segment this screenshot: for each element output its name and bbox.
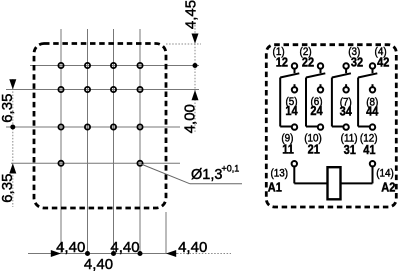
svg-text:+0,1: +0,1 [222, 164, 240, 174]
svg-text:6,35: 6,35 [0, 174, 16, 203]
svg-text:41: 41 [363, 143, 376, 157]
svg-text:42: 42 [377, 56, 390, 70]
svg-text:44: 44 [366, 105, 379, 119]
svg-text:31: 31 [344, 143, 357, 157]
svg-text:14: 14 [285, 104, 298, 118]
svg-text:(13): (13) [271, 168, 289, 180]
svg-text:22: 22 [302, 56, 315, 70]
svg-text:4,45: 4,45 [183, 0, 200, 29]
svg-text:A1: A1 [268, 181, 282, 195]
svg-text:12: 12 [276, 56, 289, 70]
svg-text:34: 34 [340, 105, 353, 119]
svg-text:A2: A2 [381, 181, 395, 195]
svg-text:Ø1,3: Ø1,3 [191, 167, 222, 183]
svg-text:(14): (14) [376, 168, 394, 180]
svg-text:4,40: 4,40 [56, 239, 85, 256]
svg-text:21: 21 [308, 143, 321, 157]
svg-text:4,40: 4,40 [110, 239, 139, 256]
svg-text:6,35: 6,35 [0, 94, 16, 123]
svg-text:32: 32 [351, 56, 364, 70]
svg-text:11: 11 [282, 143, 294, 157]
svg-text:4,40: 4,40 [178, 239, 207, 256]
svg-text:4,40: 4,40 [84, 256, 113, 271]
svg-text:24: 24 [310, 104, 323, 118]
svg-text:4,00: 4,00 [182, 104, 199, 133]
